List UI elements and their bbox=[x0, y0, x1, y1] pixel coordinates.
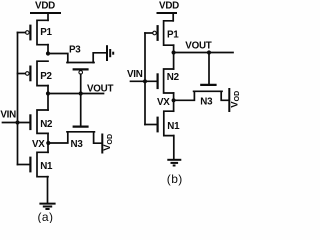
VOD supply bar (a) bbox=[101, 134, 103, 154]
wire VOUT (a) bbox=[48, 93, 104, 95]
ground symbol at P3 drain (sideways) bbox=[107, 45, 113, 61]
node VOUT junction dot (b, left) bbox=[172, 50, 176, 54]
wire node VX to N1 drain bbox=[47, 143, 49, 152]
transistor N3 (NMOS, horizontal, circuit b) bbox=[194, 85, 222, 91]
VDD supply rail (circuit a) bbox=[30, 12, 61, 14]
wire N3 drain to VOD supply bar bbox=[94, 132, 102, 143]
wire N2 source to node VX (b) bbox=[173, 93, 175, 100]
svg-text:P1: P1 bbox=[40, 27, 52, 38]
wire P3 drain to ground bbox=[93, 53, 105, 63]
svg-text:P2: P2 bbox=[40, 71, 52, 82]
wire N1 source to ground bbox=[47, 177, 49, 203]
transistor P1 (PMOS, circuit b) bbox=[153, 21, 174, 45]
node VX junction dot (b) bbox=[172, 98, 176, 102]
node VOUT junction dot (a, left) bbox=[46, 91, 50, 95]
svg-text:VIN: VIN bbox=[0, 110, 16, 121]
transistor P3 (PMOS, horizontal, circuit a) bbox=[67, 63, 94, 75]
transistor N1 (NMOS, circuit a) bbox=[30, 152, 48, 176]
wire P1 drain to VOUT node (b) bbox=[173, 45, 175, 52]
transistor N2 (NMOS, circuit b) bbox=[158, 69, 174, 93]
svg-text:P3: P3 bbox=[69, 45, 81, 56]
svg-text:P1: P1 bbox=[167, 29, 179, 40]
wire VIN to N2 gate bbox=[3, 122, 31, 124]
node VOUT junction dot (b, gate tap) bbox=[207, 50, 211, 54]
wire P2 drain to VOUT node bbox=[47, 86, 49, 94]
wire N3 drain to VOD supply bar (b) bbox=[221, 91, 228, 100]
wire P1 gate lead bbox=[18, 32, 26, 34]
transistor P1 (PMOS, circuit a) bbox=[26, 20, 49, 44]
wire P2 gate lead bbox=[18, 73, 26, 75]
wire P3 gate / N3 gate to VOUT node (vertical) bbox=[80, 74, 82, 126]
svg-text:N1: N1 bbox=[40, 161, 53, 172]
gate bus wire VIN (circuit a) bbox=[17, 33, 19, 165]
VOD supply bar (b) bbox=[228, 88, 230, 112]
gate bus wire VIN (circuit b) bbox=[144, 33, 146, 125]
wire VOUT node to N2 drain (b) bbox=[173, 53, 175, 70]
wire N3 gate to VOUT node (b) bbox=[208, 53, 210, 85]
wire node X1 to P3 source bbox=[48, 54, 68, 63]
svg-text:(b): (b) bbox=[167, 172, 183, 186]
svg-text:N3: N3 bbox=[71, 139, 84, 150]
ground symbol (circuit a) bbox=[39, 204, 55, 209]
wire N2 source to node VX bbox=[47, 133, 49, 143]
svg-text:VDD: VDD bbox=[159, 0, 179, 11]
wire VDD rail to P1 source (b) bbox=[172, 13, 174, 21]
node VOUT junction dot (a, gate tap) bbox=[79, 91, 83, 95]
wire node VX to N3 source bbox=[48, 132, 68, 143]
node VX junction dot (a) bbox=[46, 141, 50, 145]
wire node VX to N1 drain (b) bbox=[173, 100, 175, 111]
wire P1 gate lead (b) bbox=[145, 32, 153, 34]
node VIN junction dot (b) bbox=[143, 79, 147, 83]
svg-text:VX: VX bbox=[157, 97, 170, 108]
node VIN junction dot (a) bbox=[15, 120, 19, 124]
svg-text:(a): (a) bbox=[38, 210, 54, 223]
ground symbol (circuit b) bbox=[167, 160, 181, 166]
svg-text:VOUT: VOUT bbox=[87, 83, 113, 94]
wire VOUT node to N2 drain bbox=[47, 94, 49, 111]
svg-text:VOUT: VOUT bbox=[185, 41, 211, 52]
transistor N1 (NMOS, circuit b) bbox=[158, 111, 174, 135]
wire P1 drain to node X1 bbox=[47, 45, 49, 54]
wire N1 gate lead (b) bbox=[145, 124, 158, 126]
svg-text:N3: N3 bbox=[200, 97, 213, 108]
svg-text:VIN: VIN bbox=[127, 69, 143, 80]
VDD supply rail (circuit b) bbox=[157, 12, 178, 14]
transistor P2 (PMOS, circuit a) bbox=[26, 61, 49, 85]
transistor N3 (NMOS, horizontal, circuit a) bbox=[67, 127, 94, 132]
wire VOUT (b) bbox=[174, 52, 233, 54]
wire VIN to N2 gate (b) bbox=[131, 80, 158, 82]
wire N1 source to ground (b) bbox=[173, 136, 175, 159]
wire node VX to N3 source (b) bbox=[174, 91, 195, 100]
svg-text:VX: VX bbox=[32, 139, 45, 150]
svg-text:VDD: VDD bbox=[35, 0, 55, 11]
svg-text:N1: N1 bbox=[167, 121, 180, 132]
svg-text:N2: N2 bbox=[40, 119, 53, 130]
wire N1 gate lead bbox=[18, 164, 31, 166]
svg-text:N2: N2 bbox=[167, 72, 180, 83]
wire VDD rail to P1 source bbox=[47, 13, 49, 20]
node X1 junction dot (P1 drain / P2 source / P3 source) bbox=[46, 51, 50, 55]
transistor N2 (NMOS, circuit a) bbox=[30, 110, 48, 133]
